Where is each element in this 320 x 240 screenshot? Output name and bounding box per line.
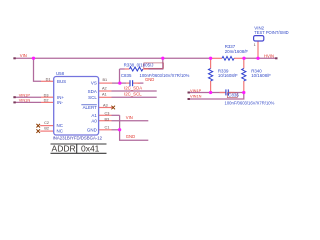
svg-text:SCL: SCL: [88, 95, 97, 100]
svg-text:A0: A0: [91, 118, 97, 123]
svg-text:A2: A2: [102, 87, 107, 91]
svg-text:0/1005/J: 0/1005/J: [137, 62, 154, 67]
svg-text:A3: A3: [103, 104, 108, 108]
svg-text:D2: D2: [44, 99, 49, 103]
svg-text:10/1608/F: 10/1608/F: [218, 73, 238, 78]
svg-text:I2C_SCL: I2C_SCL: [124, 92, 142, 97]
svg-text:I2C_SDA: I2C_SDA: [124, 85, 142, 90]
svg-text:VIN1N: VIN1N: [19, 98, 31, 103]
svg-text:IN-: IN-: [57, 100, 63, 105]
svg-text:D1: D1: [46, 77, 51, 81]
svg-text:R338: R338: [124, 62, 135, 67]
svg-text:INA231BIYFD/DSBGA-12: INA231BIYFD/DSBGA-12: [53, 135, 103, 140]
svg-text:C2: C2: [44, 121, 49, 125]
svg-text:U58: U58: [56, 71, 65, 76]
svg-text:VIN: VIN: [20, 53, 27, 58]
svg-text:GND: GND: [87, 128, 97, 133]
svg-text:B3: B3: [105, 118, 110, 122]
svg-text:C835: C835: [121, 73, 132, 78]
svg-text:HVIN: HVIN: [264, 53, 274, 58]
svg-text:100nF/0603/16V/X7R/10%: 100nF/0603/16V/X7R/10%: [140, 73, 190, 78]
svg-text:NC: NC: [57, 123, 64, 128]
svg-text:VIN1P: VIN1P: [190, 88, 202, 93]
svg-text:D3: D3: [44, 93, 49, 97]
svg-text:TEST POINT/SMD: TEST POINT/SMD: [254, 30, 288, 35]
svg-text:NC: NC: [57, 129, 64, 134]
svg-text:ADDR: ADDR: [52, 144, 76, 154]
svg-text:VIN: VIN: [126, 115, 133, 120]
svg-text:VS: VS: [91, 80, 97, 85]
svg-text:B1: B1: [103, 78, 108, 82]
svg-text:1: 1: [254, 43, 256, 47]
svg-text:BUS: BUS: [57, 79, 66, 84]
svg-text:20m/1608/F: 20m/1608/F: [225, 49, 249, 54]
svg-text:ALERT: ALERT: [83, 105, 98, 110]
svg-text:0x41: 0x41: [81, 144, 100, 154]
svg-text:C1: C1: [105, 126, 110, 130]
svg-text:C3: C3: [105, 112, 110, 116]
svg-text:C836: C836: [228, 93, 239, 98]
svg-text:10/1608/F: 10/1608/F: [251, 73, 271, 78]
svg-text:B2: B2: [44, 127, 49, 131]
svg-text:VIN1N: VIN1N: [190, 94, 202, 99]
svg-text:GND: GND: [126, 134, 135, 139]
svg-text:A1: A1: [91, 113, 97, 118]
svg-text:SDA: SDA: [88, 89, 97, 94]
svg-text:A1: A1: [102, 92, 107, 96]
svg-text:100nF/0603/16V/X7R/10%: 100nF/0603/16V/X7R/10%: [225, 101, 275, 106]
